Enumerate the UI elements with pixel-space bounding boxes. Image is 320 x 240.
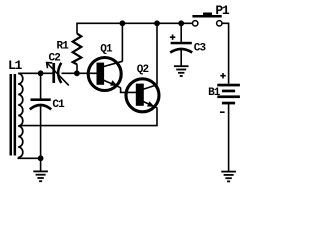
svg-text:C1: C1 [52, 99, 65, 111]
svg-text:Q2: Q2 [137, 64, 149, 76]
svg-text:R1: R1 [57, 41, 70, 53]
svg-text:B1: B1 [208, 87, 221, 99]
svg-text:C3: C3 [194, 42, 207, 54]
svg-text:Q1: Q1 [100, 43, 113, 55]
svg-text:C2: C2 [49, 53, 61, 65]
svg-text:P1: P1 [215, 3, 230, 18]
svg-text:L1: L1 [8, 58, 23, 73]
